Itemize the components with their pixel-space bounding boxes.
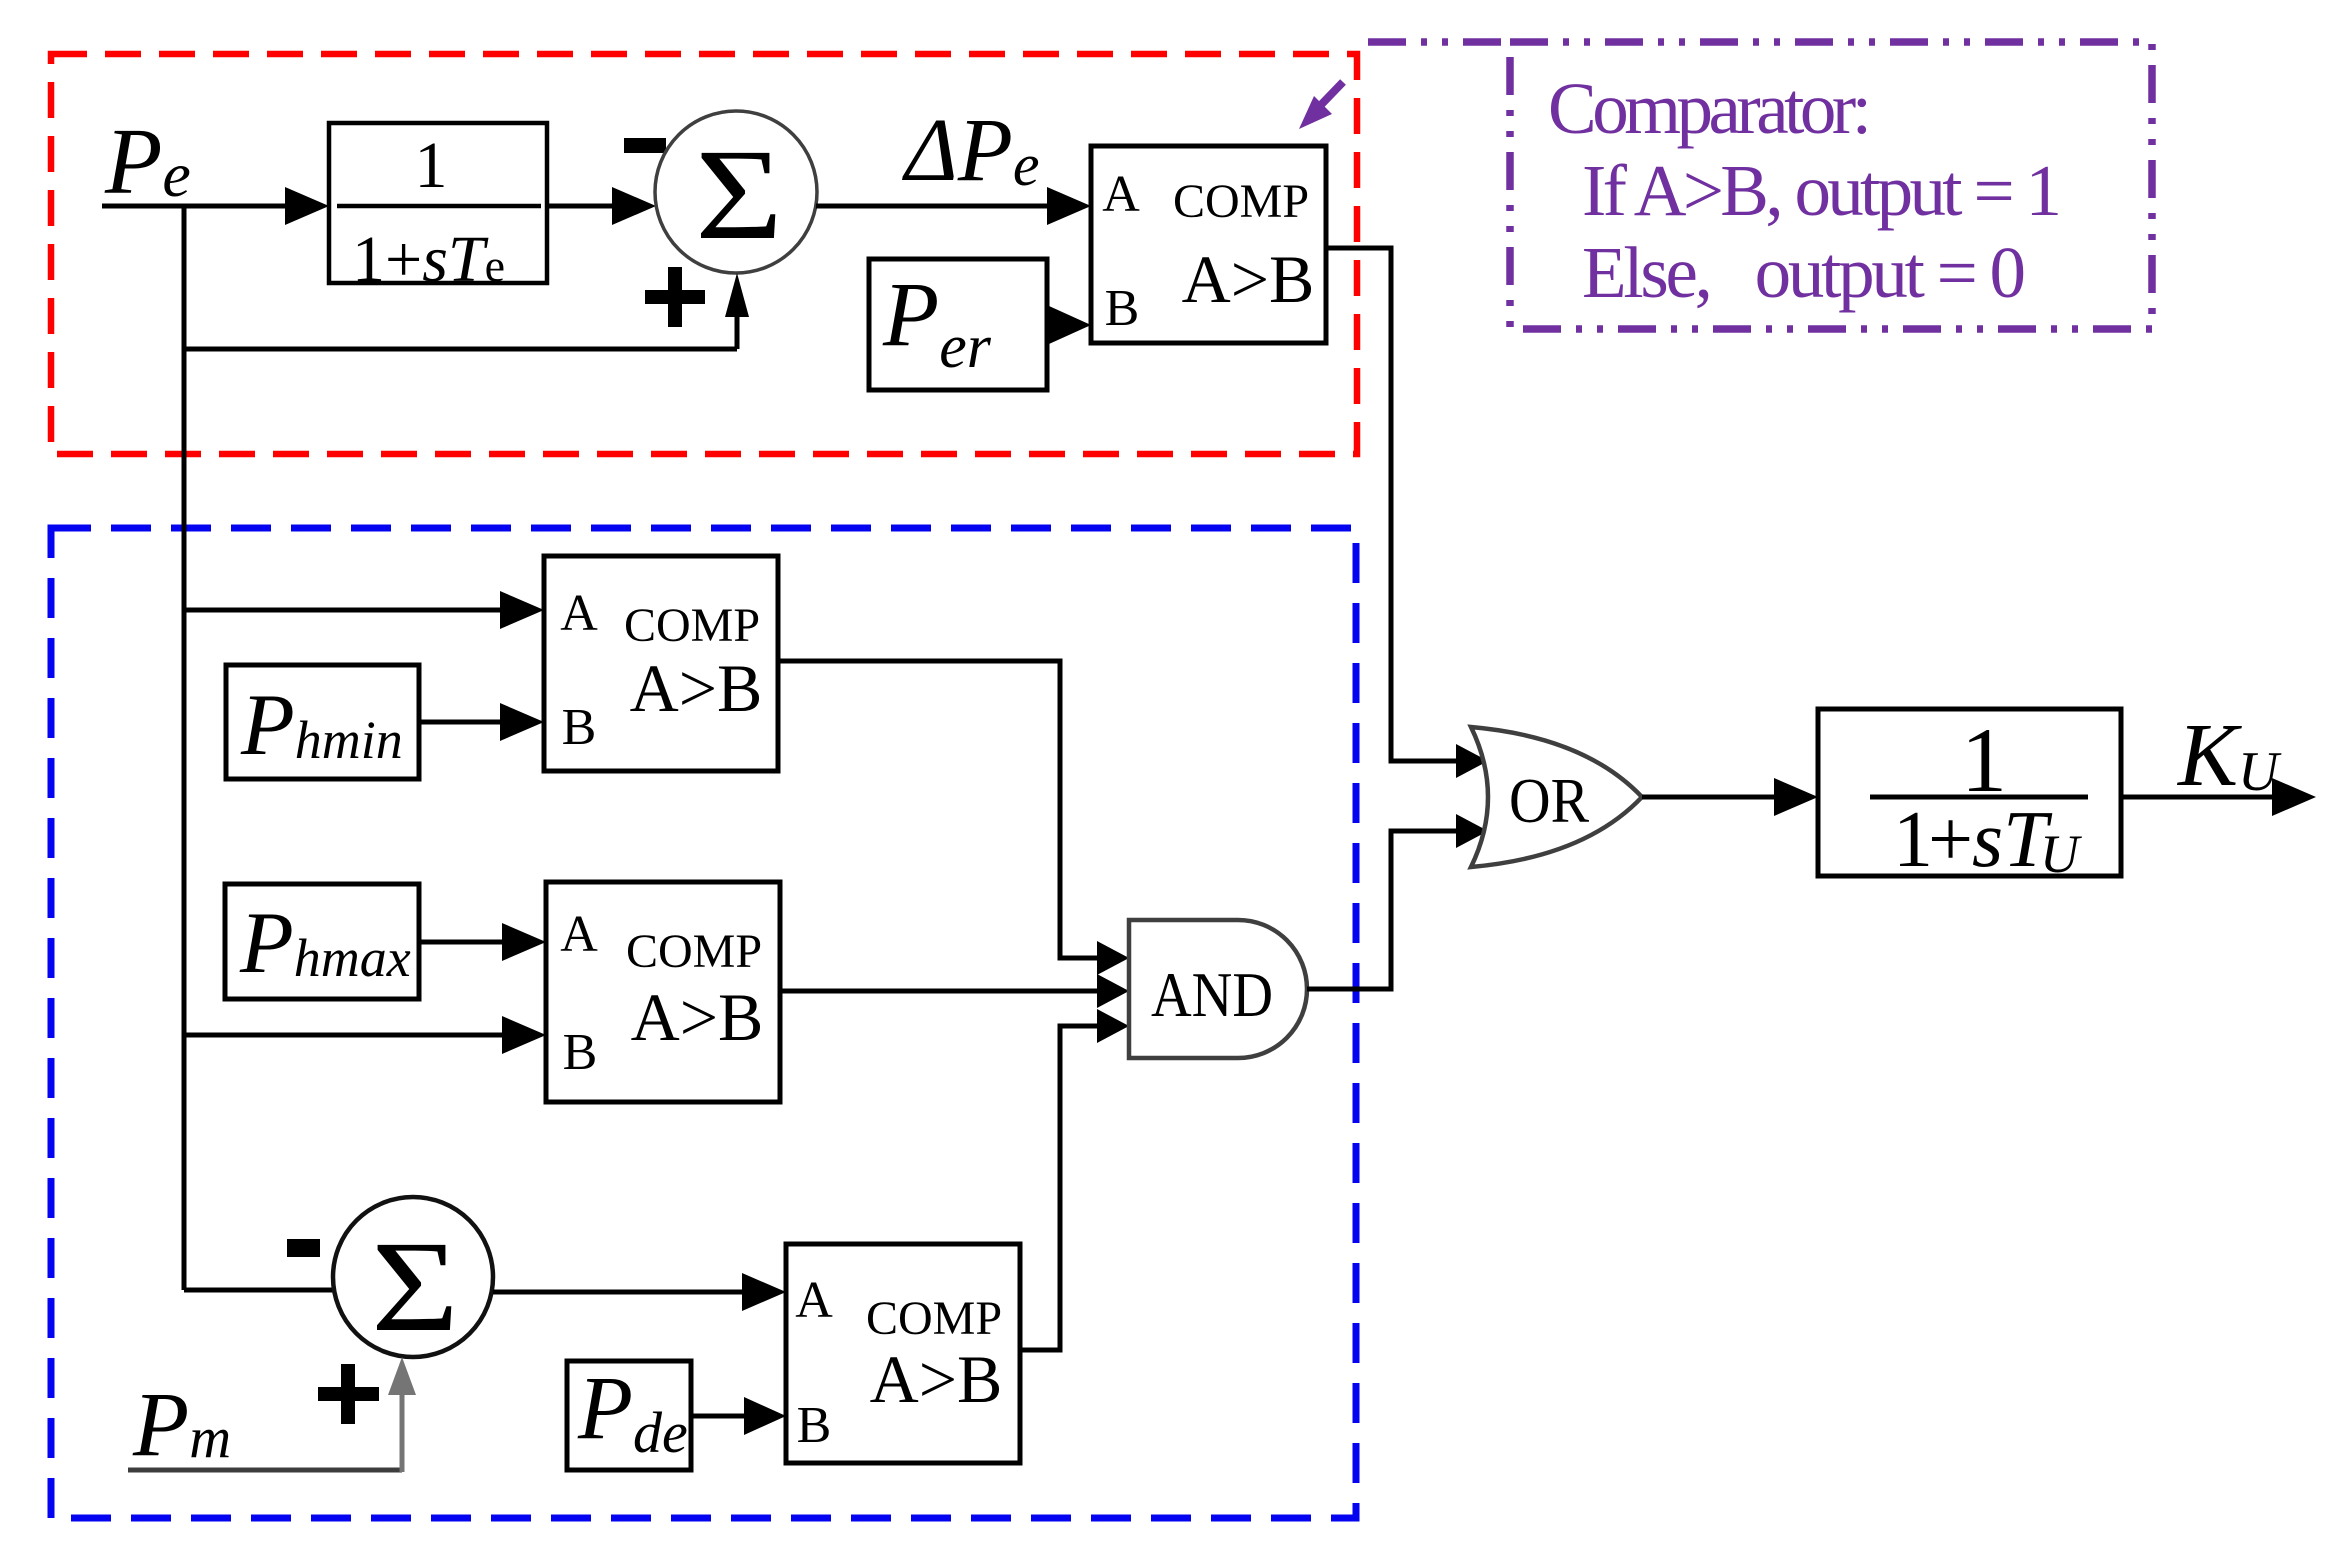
wire Per to COMP1 B [1047,306,1091,344]
plus sign at S1 [645,267,705,327]
block Pde reference [567,1359,691,1470]
svg-text:OR: OR [1509,765,1589,836]
block G1 1/(1+sTe) [329,123,547,296]
svg-text:A: A [1102,166,1140,223]
red dashed region (power detection block) [51,54,1357,454]
block Per reference [869,259,1047,390]
svg-text:AND: AND [1151,959,1273,1030]
svg-text:U: U [2040,824,2082,884]
svg-text:Σ: Σ [695,123,783,266]
summer S2 [333,1197,493,1359]
wire Pe branch to COMP2 A [184,591,544,629]
wire OR output to block G2 [1642,778,1818,816]
block Phmax reference [225,884,419,999]
svg-text:COMP: COMP [624,599,760,652]
svg-text:A: A [560,585,598,642]
svg-text:1: 1 [415,129,448,202]
svg-text:A>B: A>B [630,650,763,726]
wire Pe branch vertical [182,206,187,1290]
svg-text:A: A [560,906,598,963]
svg-text:COMP: COMP [626,925,762,978]
wire S2 output to COMP4 A [493,1273,786,1311]
wire AND output to OR bottom input [1307,814,1488,989]
gate AND [1129,920,1307,1058]
plus sign at S2 [318,1364,379,1424]
svg-text:A>B: A>B [631,979,764,1055]
svg-text:Σ: Σ [371,1215,459,1358]
wire Pe branch to summer S2 [184,1288,336,1293]
svg-text:A>B: A>B [1182,241,1315,317]
comparator COMP1 [1091,146,1326,343]
svg-text:K: K [2176,706,2242,805]
summer S1 [655,111,817,273]
svg-text:A: A [795,1272,833,1329]
wire Phmax to COMP3 A [419,923,546,961]
comparator COMP4 [786,1244,1020,1463]
svg-text:1+sTe: 1+sTe [352,223,505,296]
svg-text:COMP: COMP [1173,175,1309,228]
wire Pde to COMP4 B [691,1397,786,1435]
svg-text:A>B: A>B [870,1341,1003,1417]
wire Pe branch to COMP3 B [184,1016,546,1054]
gate OR [1471,727,1642,867]
svg-text:1: 1 [1893,796,1933,884]
block Phmin reference [226,665,419,779]
svg-text:Else, output = 0: Else, output = 0 [1582,232,2026,313]
wire Pe feedback to S1 plus input [184,273,749,349]
comparator COMP3 [546,882,780,1102]
minus sign at S1 [624,138,666,153]
wire COMP4 output to AND input 3 [1020,1009,1129,1350]
svg-text:+: + [1928,796,1973,884]
wire COMP3 output to AND input 2 [780,974,1129,1008]
minus sign at S2 [287,1239,320,1257]
svg-text:B: B [562,699,597,756]
svg-text:B: B [563,1024,598,1081]
wire COMP2 output to AND input 1 [778,661,1129,975]
wire Pm to S2 plus input [128,1357,416,1472]
svg-text:Comparator:: Comparator: [1548,68,1872,149]
wire G1 to summer S1 [547,187,656,225]
wire S1 to COMP1 A [816,187,1091,225]
comparator COMP2 [544,556,778,771]
svg-text:B: B [797,1397,832,1454]
block G2 1/(1+sTU) [1818,709,2121,884]
wire COMP1 output to OR top input [1326,248,1488,778]
wire Phmin to COMP2 B [419,703,544,741]
wire Pe input [102,187,329,225]
purple pointer arrow to red region [1299,82,1343,129]
annotation text Comparator rule [1548,68,2062,313]
wire KU output [2121,778,2316,816]
svg-text:If A>B, output = 1: If A>B, output = 1 [1582,150,2062,231]
svg-text:COMP: COMP [866,1292,1002,1345]
svg-text:B: B [1105,280,1140,337]
blue dashed region (hydro power band logic) [51,528,1356,1518]
purple dash-dot annotation box [1368,42,2152,329]
